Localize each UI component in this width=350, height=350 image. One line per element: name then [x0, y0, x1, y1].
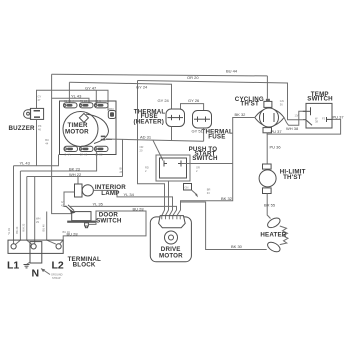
label GROUND STRAP with arrow: [41, 269, 63, 281]
svg-text:GY 26: GY 26: [188, 98, 200, 103]
wire YL 35 door switch to motor: [69, 202, 177, 216]
wire AD 31: [106, 134, 204, 141]
svg-text:YL 43: YL 43: [71, 93, 82, 98]
svg-text:L2: L2: [52, 260, 64, 272]
svg-text:OR: OR: [196, 166, 200, 170]
wire BU 28 door switch to terminal block L2: [60, 206, 147, 244]
label GY 47 stacked at buzzer top: [38, 94, 42, 102]
svg-text:BR 55: BR 55: [264, 203, 276, 208]
svg-text:GY 24: GY 24: [158, 98, 170, 103]
svg-text:SWITCH: SWITCH: [96, 217, 122, 224]
interior lamp: [75, 184, 94, 197]
label INTERIOR LAMP: [95, 184, 126, 197]
wire BK 23 vertical to block: [16, 171, 21, 244]
wire YL 34 lamp to motor: [93, 139, 172, 215]
svg-text:GN: GN: [280, 99, 284, 103]
svg-text:GY 51: GY 51: [192, 128, 204, 133]
svg-text:WH 22: WH 22: [22, 223, 26, 231]
wire YL 43 vertical to L1: [14, 166, 37, 244]
svg-text:TH'ST: TH'ST: [283, 174, 302, 181]
svg-text:AD 31: AD 31: [140, 134, 152, 139]
svg-text:(HEATER): (HEATER): [134, 119, 165, 126]
wire BR 55 hi-limit to heater: [264, 194, 276, 219]
svg-text:PU 37: PU 37: [271, 129, 283, 134]
label PUSH TO START SWITCH: [189, 146, 218, 162]
wire WH 38 cycling to temp switch: [284, 111, 306, 131]
svg-text:PU 36: PU 36: [270, 145, 282, 150]
label BU 44 stacked left of timer: [45, 138, 49, 146]
wire BU 44 top horizontal: [52, 68, 268, 76]
wire OR 20: [138, 75, 303, 120]
wire BK 32 motor to cycling thermostat: [177, 112, 254, 215]
svg-text:GY 24: GY 24: [136, 85, 148, 90]
svg-text:SWITCH: SWITCH: [192, 155, 218, 162]
label GY 42 stacked: [61, 200, 65, 208]
wire BR 33 motor to heater return: [181, 188, 267, 250]
svg-text:GROUND: GROUND: [51, 273, 63, 277]
wire fuse1 bottom drop: [171, 127, 173, 141]
hi-limit thermostat: [259, 164, 276, 194]
wire switch right pin to BK 32 vertical: [181, 163, 233, 165]
svg-text:YL 34: YL 34: [124, 192, 135, 197]
push-to-start switch box: [156, 155, 190, 181]
svg-text:BU 40: BU 40: [42, 224, 46, 232]
wire GY 47 buzzer to timer: [37, 85, 109, 110]
svg-text:ABU: ABU: [109, 107, 114, 111]
svg-text:BR: BR: [207, 188, 211, 192]
wire diagonal AD 31 to push-to-start switch: [153, 140, 163, 160]
vertical wire labels above terminal block: [7, 223, 46, 235]
svg-text:SWITCH: SWITCH: [307, 96, 333, 103]
timer right pin to AD 31: [101, 136, 112, 141]
timer bottom terminal row: [64, 146, 108, 151]
door switch: [66, 205, 97, 228]
svg-text:BLOCK: BLOCK: [73, 261, 96, 268]
temp switch box: [295, 103, 333, 128]
wire OR 20 vertical to motor: [138, 81, 165, 216]
svg-text:STRAP: STRAP: [52, 276, 61, 280]
svg-text:S•4A: S•4A: [65, 152, 71, 156]
wire GY 24 horizontal: [69, 82, 171, 109]
svg-text:MOTOR: MOTOR: [159, 252, 183, 259]
svg-text:RD: RD: [145, 166, 149, 170]
svg-text:WH: WH: [36, 217, 40, 221]
svg-text:S1•C1•A: S1•C1•A: [64, 99, 74, 103]
wire switch bottom to motor pin: [165, 181, 168, 216]
svg-text:C3•B: C3•B: [95, 99, 101, 103]
wire BK 23 terminal block to timer: [21, 152, 97, 172]
svg-text:BUZZER: BUZZER: [9, 125, 36, 132]
timer motor circle: [63, 112, 109, 147]
wire PU 37 cycling bottom to temp switch right: [267, 114, 344, 134]
svg-text:PU 37: PU 37: [333, 114, 345, 119]
thermal fuse (heater) component: [166, 109, 185, 127]
label DOOR SWITCH: [96, 211, 122, 224]
wire WH 22 vertical to block: [27, 177, 32, 245]
timer assembly box: [60, 101, 117, 155]
svg-text:B4•A6: B4•A6: [80, 152, 88, 156]
svg-text:BU 28: BU 28: [133, 206, 145, 211]
label OR 2 stacked right of switch: [196, 166, 200, 174]
svg-text:BK 23: BK 23: [69, 166, 81, 171]
label TEMP SWITCH: [307, 91, 333, 102]
wire fuse2 bottom drop GY 51: [203, 128, 205, 141]
svg-text:WH 22: WH 22: [69, 172, 82, 177]
wire GY 42 lamp to door switch: [64, 192, 75, 207]
ground symbol at N: [24, 262, 31, 268]
svg-text:YL 43: YL 43: [7, 228, 11, 235]
ground GN symbol near motor: [184, 184, 199, 198]
label THERMAL FUSE: [202, 128, 234, 140]
drive motor box: [150, 216, 191, 262]
thermal fuse component: [193, 111, 212, 129]
wire BU 44 left vertical down to door switch: [52, 74, 72, 213]
svg-text:TH'ST: TH'ST: [240, 101, 259, 108]
svg-text:GY 47: GY 47: [85, 85, 97, 90]
svg-text:T2•B3: T2•B3: [80, 99, 88, 103]
timer top terminal row: [64, 103, 109, 108]
svg-text:BK 32: BK 32: [235, 112, 247, 117]
wire GY 24 drop to timer terminal 1: [68, 82, 70, 103]
wire PU 36 cycling to hi-limit: [267, 133, 281, 164]
wire BU 40 vertical: [47, 212, 56, 245]
svg-text:FUSE: FUSE: [208, 133, 225, 140]
label RD 2 stacked left of switch: [145, 166, 149, 174]
svg-text:WH 38: WH 38: [286, 126, 299, 131]
label GN 36 stacked: [280, 99, 284, 107]
svg-text:BK 32: BK 32: [221, 196, 233, 201]
svg-text:GY: GY: [61, 200, 65, 204]
svg-text:BK 30: BK 30: [231, 244, 243, 249]
svg-text:BK 23: BK 23: [15, 226, 19, 234]
svg-text:GY: GY: [38, 94, 42, 98]
svg-text:YL 35: YL 35: [93, 202, 104, 207]
wire BU 44 drop to cycling top: [266, 76, 268, 99]
svg-text:YL 43: YL 43: [20, 160, 31, 165]
label BU 26 stacked below timer: [120, 167, 124, 175]
svg-text:13A: 13A: [295, 114, 300, 118]
svg-text:OR: OR: [140, 145, 144, 149]
label CYCLING TH'ST: [235, 96, 264, 108]
heater element: [266, 216, 288, 254]
terminal block: [8, 240, 63, 263]
svg-text:L1: L1: [7, 260, 19, 272]
svg-text:HEATER: HEATER: [260, 232, 286, 239]
timer tiny pin texts: [64, 99, 103, 156]
svg-text:N: N: [32, 268, 40, 280]
svg-text:BU: BU: [45, 138, 49, 142]
wire GY 26 bracket between fuses: [181, 98, 204, 110]
wire WH 22: [27, 172, 123, 177]
wire WH 22 drop to lamp: [77, 177, 79, 185]
timer cam diamond: [79, 113, 88, 122]
cycling thermostat: [255, 99, 284, 133]
svg-text:BU 19: BU 19: [63, 230, 71, 234]
label PK 46 stacked at buzzer bottom: [38, 124, 42, 132]
wire PK 46 buzzer bottom to timer (YL 43): [20, 119, 59, 165]
label HI-LIMIT TH'ST: [280, 169, 306, 182]
label DRIVE MOTOR: [159, 246, 183, 259]
buzzer BZ: [24, 108, 44, 119]
timer ABU terminal boxlet: [108, 107, 115, 119]
wire YL 43 to timer terminal 2: [52, 93, 89, 103]
label OR 20 stacked on vertical: [140, 145, 144, 153]
svg-text:GN: GN: [185, 186, 189, 190]
wire WH 29 vertical to N: [35, 177, 41, 244]
svg-text:MOTOR: MOTOR: [65, 129, 89, 136]
label THERMAL FUSE (HEATER): [134, 108, 166, 125]
svg-text:OR 20: OR 20: [187, 75, 199, 80]
label TERMINAL BLOCK: [68, 256, 101, 268]
svg-text:BU 44: BU 44: [226, 68, 238, 73]
svg-text:PK: PK: [38, 124, 42, 128]
